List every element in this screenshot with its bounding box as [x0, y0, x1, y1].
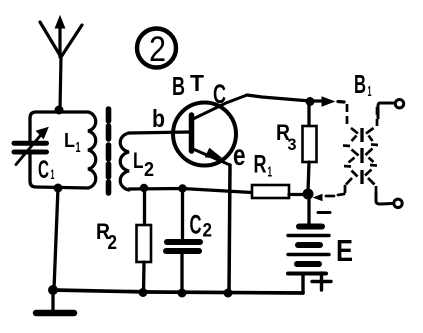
svg-text:C: C: [38, 156, 49, 184]
inductor L2: [120, 133, 129, 190]
wire emitter down to rail: [229, 165, 230, 293]
capacitor C2: [166, 184, 200, 293]
battery E: [288, 198, 331, 293]
wire dashed junction to B1 bottom: [314, 186, 345, 201]
transformer B1 (dashed windings and core): [343, 104, 378, 192]
resistor R3: [303, 102, 317, 192]
svg-text:B: B: [354, 69, 366, 99]
wire collector to top right: [247, 95, 322, 101]
terminal bottom right: [376, 193, 402, 208]
svg-text:3: 3: [288, 135, 297, 154]
resistor R1: [252, 185, 305, 198]
svg-text:1: 1: [268, 164, 273, 181]
svg-text:R: R: [254, 151, 267, 179]
capacitor C1 (variable): [14, 128, 48, 165]
node: R1 / R3 / battery junction: [303, 189, 314, 200]
wire bottom rail: [53, 290, 303, 293]
wire tank bottom to ground rail: [54, 188, 58, 289]
svg-text:1: 1: [76, 139, 81, 156]
antenna: [40, 18, 82, 111]
resistor R2: [137, 184, 152, 293]
svg-text:2: 2: [108, 232, 118, 254]
svg-text:2: 2: [203, 221, 213, 242]
svg-text:2: 2: [149, 30, 166, 69]
wire tank top: [30, 112, 88, 141]
svg-text:e: e: [233, 139, 246, 172]
node: antenna / tank top junction: [55, 106, 64, 115]
figure number circle "2": [137, 29, 176, 68]
wire L2 bottom to R1: [129, 189, 252, 193]
svg-text:C: C: [213, 79, 226, 109]
node: collector / R3 junction: [306, 97, 315, 106]
svg-text:1: 1: [51, 166, 55, 182]
terminal top right: [378, 100, 404, 119]
wire L2 top to base: [129, 132, 190, 133]
svg-text:T: T: [190, 70, 204, 96]
node: rail junctions: [48, 285, 58, 295]
svg-text:2: 2: [144, 159, 154, 181]
svg-text:L: L: [133, 148, 144, 173]
core of transformer L1/L2 (dashed): [106, 109, 112, 193]
svg-text:E: E: [336, 233, 353, 268]
svg-text:b: b: [152, 105, 165, 133]
ground: [36, 290, 74, 313]
svg-text:B: B: [172, 71, 185, 101]
node: tank bottom junction: [54, 184, 63, 193]
transistor BT: [173, 95, 247, 166]
svg-text:C: C: [190, 210, 202, 240]
inductor L1: [88, 112, 96, 188]
wire tank left lower: [30, 154, 88, 188]
svg-text:L: L: [64, 130, 75, 152]
arrow to B1 (top): [322, 97, 334, 106]
svg-text:1: 1: [368, 83, 372, 100]
